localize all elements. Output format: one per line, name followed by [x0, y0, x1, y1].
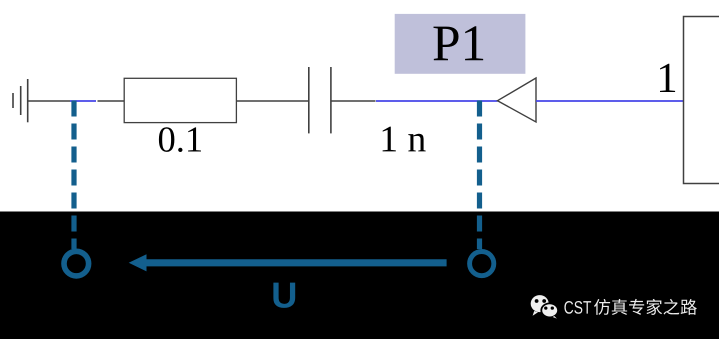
- wire blue port to block: [536, 100, 684, 102]
- arrow U head: [129, 254, 147, 271]
- port label P1 text: [433, 26, 483, 60]
- watermark text CST: [564, 301, 591, 314]
- wire capacitor to blue net: [331, 100, 376, 102]
- wire blue capacitor to port: [376, 100, 498, 102]
- watermark wechat icon big bubble eyes: [535, 299, 539, 303]
- value label 0.1: [159, 127, 201, 152]
- wire node to resistor: [98, 100, 125, 102]
- watermark wechat icon big bubble: [531, 295, 549, 316]
- label U: [273, 283, 295, 308]
- capacitor C1 plate left: [308, 67, 310, 133]
- resistor R1: [124, 78, 236, 122]
- port P1 triangle: [498, 78, 537, 122]
- probe node circle left: [64, 251, 89, 276]
- watermark text CJK: [594, 299, 697, 315]
- probe dashed line right: [477, 101, 482, 250]
- probe node circle right: [470, 252, 494, 276]
- wire ground to node: [28, 100, 70, 102]
- watermark wechat icon small bubble eyes: [544, 306, 547, 309]
- probe dashed line left: [71, 101, 76, 250]
- ground: [13, 79, 28, 122]
- pin label 1: [660, 64, 675, 92]
- wire resistor to capacitor: [236, 100, 308, 102]
- black lower band: [0, 212, 719, 339]
- watermark wechat icon small bubble: [541, 303, 558, 318]
- arrow U shaft: [146, 259, 447, 266]
- value label 1 n: [383, 127, 426, 152]
- capacitor C1 plate right: [330, 67, 332, 133]
- block (right box): [684, 17, 719, 184]
- wire blue node segment: [70, 100, 96, 102]
- port label P1 highlight: [395, 14, 526, 74]
